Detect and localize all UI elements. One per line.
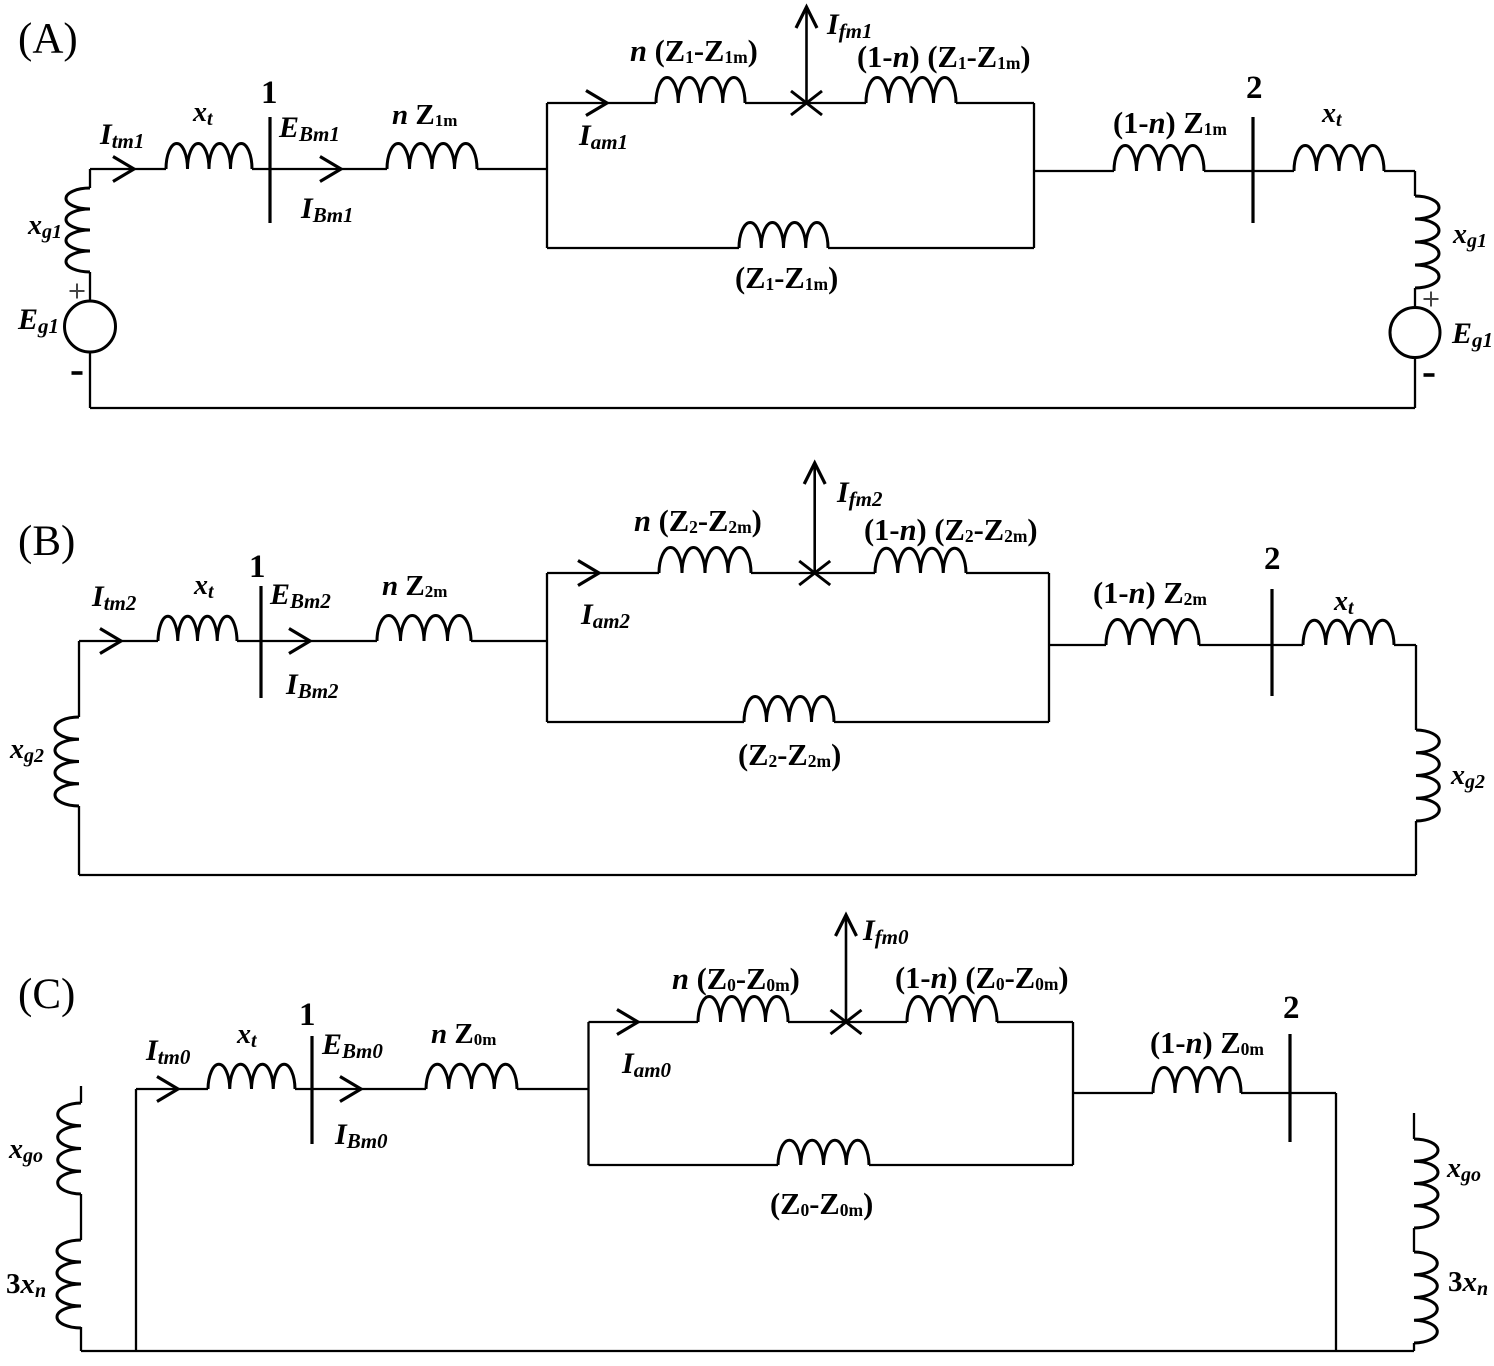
svg-text:EBm0: EBm0 bbox=[321, 1028, 383, 1063]
svg-text:EBm1: EBm1 bbox=[278, 111, 340, 146]
svg-text:1: 1 bbox=[299, 997, 316, 1033]
svg-text:Itm2: Itm2 bbox=[91, 580, 137, 615]
svg-text:2: 2 bbox=[1246, 70, 1263, 106]
svg-text:Iam1: Iam1 bbox=[578, 119, 628, 154]
svg-text:Iam2: Iam2 bbox=[580, 598, 631, 633]
svg-text:xgo: xgo bbox=[1446, 1153, 1481, 1186]
svg-text:(1-n) Z0m: (1-n) Z0m bbox=[1150, 1026, 1264, 1060]
svg-text:3xn: 3xn bbox=[6, 1268, 46, 1302]
svg-text:xg2: xg2 bbox=[9, 734, 44, 767]
svg-text:xgo: xgo bbox=[8, 1134, 43, 1167]
svg-text:xt: xt bbox=[193, 570, 215, 603]
svg-text:n Z0m: n Z0m bbox=[431, 1018, 496, 1050]
svg-text:n Z1m: n Z1m bbox=[392, 99, 457, 131]
svg-text:Ifm1: Ifm1 bbox=[826, 8, 873, 43]
svg-text:1: 1 bbox=[261, 75, 278, 111]
svg-text:(Z2-Z2m): (Z2-Z2m) bbox=[738, 738, 841, 772]
svg-text:n (Z1-Z1m): n (Z1-Z1m) bbox=[630, 34, 758, 68]
svg-text:Eg1: Eg1 bbox=[17, 303, 59, 338]
svg-text:IBm2: IBm2 bbox=[285, 668, 339, 703]
svg-text:xt: xt bbox=[192, 97, 214, 130]
svg-text:2: 2 bbox=[1264, 541, 1281, 577]
svg-text:3xn: 3xn bbox=[1448, 1266, 1488, 1300]
svg-text:xt: xt bbox=[236, 1019, 258, 1052]
svg-text:Iam0: Iam0 bbox=[621, 1047, 672, 1082]
svg-text:IBm0: IBm0 bbox=[334, 1118, 388, 1153]
svg-text:Ifm2: Ifm2 bbox=[836, 476, 883, 511]
svg-text:(1-n) (Z2-Z2m): (1-n) (Z2-Z2m) bbox=[864, 513, 1038, 547]
svg-text:n (Z0-Z0m): n (Z0-Z0m) bbox=[672, 962, 800, 996]
svg-text:Itm1: Itm1 bbox=[99, 118, 144, 153]
svg-text:xg1: xg1 bbox=[27, 210, 62, 243]
svg-text:(Z0-Z0m): (Z0-Z0m) bbox=[770, 1187, 873, 1221]
svg-text:xt: xt bbox=[1333, 586, 1355, 619]
svg-text:EBm2: EBm2 bbox=[269, 578, 331, 613]
svg-text:xg1: xg1 bbox=[1452, 219, 1487, 252]
svg-text:(A): (A) bbox=[18, 16, 78, 63]
svg-text:Itm0: Itm0 bbox=[145, 1034, 191, 1069]
svg-text:xt: xt bbox=[1321, 98, 1343, 131]
svg-text:(1-n) Z2m: (1-n) Z2m bbox=[1093, 576, 1207, 610]
svg-text:xg2: xg2 bbox=[1450, 760, 1485, 793]
svg-text:2: 2 bbox=[1283, 990, 1300, 1026]
svg-text:Ifm0: Ifm0 bbox=[862, 914, 909, 949]
svg-text:(C): (C) bbox=[18, 971, 75, 1018]
svg-text:IBm1: IBm1 bbox=[300, 192, 354, 227]
svg-text:(B): (B) bbox=[18, 518, 75, 565]
svg-text:1: 1 bbox=[249, 549, 266, 585]
svg-text:n (Z2-Z2m): n (Z2-Z2m) bbox=[634, 504, 762, 538]
svg-text:n Z2m: n Z2m bbox=[382, 570, 447, 602]
svg-text:(1-n) (Z0-Z0m): (1-n) (Z0-Z0m) bbox=[895, 961, 1069, 995]
svg-text:(1-n) (Z1-Z1m): (1-n) (Z1-Z1m) bbox=[857, 40, 1031, 74]
svg-text:Eg1: Eg1 bbox=[1451, 317, 1493, 352]
svg-text:(1-n) Z1m: (1-n) Z1m bbox=[1113, 106, 1227, 140]
svg-text:(Z1-Z1m): (Z1-Z1m) bbox=[735, 261, 838, 295]
